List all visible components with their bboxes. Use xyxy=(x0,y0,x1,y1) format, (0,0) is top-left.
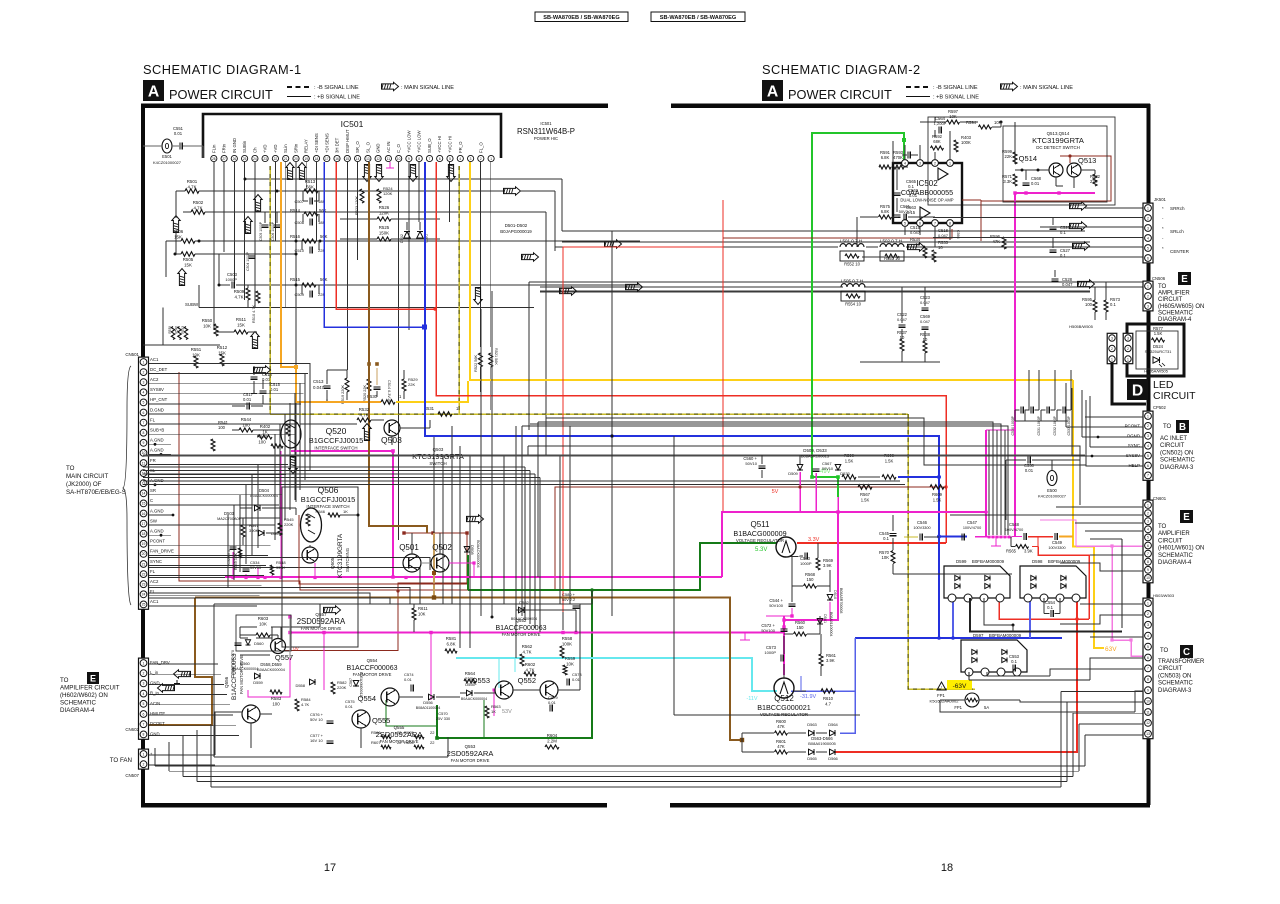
svg-text:SUB+B: SUB+B xyxy=(150,428,164,433)
diode D533 xyxy=(835,465,841,471)
svg-text:C506 1000P: C506 1000P xyxy=(271,221,275,241)
svg-text:FR_O: FR_O xyxy=(458,141,463,153)
diode D560 xyxy=(245,640,250,645)
wire stubs into CP502 xyxy=(1085,416,1143,418)
main signal arrows on center buses xyxy=(522,253,539,261)
svg-text:FAN MOTOR DRIVE: FAN MOTOR DRIVE xyxy=(451,758,490,763)
svg-text:C533 1000P: C533 1000P xyxy=(1067,415,1071,435)
IC502 pins top xyxy=(902,160,909,167)
svg-text:1.5K: 1.5K xyxy=(861,498,870,503)
svg-text:B0JAPG000019: B0JAPG000019 xyxy=(500,229,532,234)
long bus pair y242 xyxy=(562,241,1090,243)
svg-text:100V/4700: 100V/4700 xyxy=(963,526,981,530)
svg-text:1: 1 xyxy=(1111,357,1113,361)
svg-text:13: 13 xyxy=(1146,732,1150,736)
dual op amp IC502 box xyxy=(893,163,962,223)
svg-text:R521 56K: R521 56K xyxy=(494,348,498,365)
svg-text:HELP: HELP xyxy=(1129,463,1141,468)
resistor R522 xyxy=(478,353,482,367)
capacitor C562 xyxy=(894,192,901,194)
svg-text:2SD0592ARA: 2SD0592ARA xyxy=(297,617,346,626)
caps C505 C506 1000P rotated xyxy=(262,224,269,226)
resistor R584 xyxy=(295,699,299,711)
svg-text:PCONT: PCONT xyxy=(150,539,165,544)
svg-text:D509, D533: D509, D533 xyxy=(803,448,827,453)
svg-text:9: 9 xyxy=(143,441,145,445)
svg-text:0.1: 0.1 xyxy=(1060,230,1066,235)
wire bundle center to right xyxy=(546,418,1143,466)
svg-text:8: 8 xyxy=(143,733,145,737)
svg-text:3: 3 xyxy=(1147,434,1149,438)
svg-text:0.01: 0.01 xyxy=(270,387,279,392)
svg-text:0.047: 0.047 xyxy=(910,230,921,235)
IC502 pins bottom xyxy=(902,220,909,227)
op amp triangle bottom xyxy=(920,207,930,219)
text TO AMPLIFIER CIRCUIT E (CN601) xyxy=(1180,510,1193,523)
svg-text:1000P: 1000P xyxy=(764,650,776,655)
svg-text:D556: D556 xyxy=(423,700,433,705)
svg-text:SCHEMATIC: SCHEMATIC xyxy=(1158,310,1194,316)
svg-text:0.047: 0.047 xyxy=(920,319,931,324)
svg-text:SUBW: SUBW xyxy=(185,302,199,307)
transistor Q552 xyxy=(540,681,558,699)
svg-text:3: 3 xyxy=(919,162,921,166)
svg-text:21: 21 xyxy=(142,562,146,566)
blue wire pin16 xyxy=(324,162,423,327)
dark green wire 5.3V net xyxy=(468,543,777,590)
resistor R552 xyxy=(840,251,864,261)
svg-text:28: 28 xyxy=(212,157,216,161)
LED circuit box xyxy=(1127,324,1184,376)
svg-text:FL: FL xyxy=(150,417,156,422)
svg-text:C504 1000P: C504 1000P xyxy=(246,251,250,271)
svg-text:: +B SIGNAL LINE: : +B SIGNAL LINE xyxy=(933,95,979,101)
svg-text:CN601: CN601 xyxy=(1153,496,1167,501)
svg-text:CN506: CN506 xyxy=(1152,276,1166,281)
svg-text:0.1: 0.1 xyxy=(1110,302,1116,307)
svg-text:D533: D533 xyxy=(840,471,850,476)
svg-text:DGND: DGND xyxy=(1127,433,1140,438)
connector CN506 xyxy=(1143,281,1153,311)
svg-text:1: 1 xyxy=(1147,503,1149,507)
svg-text:63V: 63V xyxy=(1105,646,1117,653)
svg-text:0.047: 0.047 xyxy=(313,385,325,390)
svg-text:9: 9 xyxy=(408,157,410,161)
svg-text:100: 100 xyxy=(272,702,280,707)
wires Q557 cluster xyxy=(240,634,256,636)
left text TO AMPLIFIER CIRCUIT E xyxy=(87,672,99,684)
svg-text:+VCC LOW: +VCC LOW xyxy=(406,129,411,153)
svg-text:5.3V: 5.3V xyxy=(755,547,767,553)
model label SB-WA870EB box 2 xyxy=(651,12,745,22)
svg-text:7: 7 xyxy=(143,723,145,727)
svg-text:50V2.2: 50V2.2 xyxy=(899,209,912,214)
svg-text:AC1: AC1 xyxy=(150,357,159,362)
svg-text:150: 150 xyxy=(807,577,815,582)
svg-text:B08A01900005: B08A01900005 xyxy=(808,741,836,746)
legend main signal line xyxy=(1001,82,1018,90)
svg-text:150: 150 xyxy=(797,625,805,630)
svg-text:-63V: -63V xyxy=(953,683,967,690)
svg-text:10: 10 xyxy=(1146,699,1150,703)
svg-text:R550: R550 xyxy=(202,318,213,323)
red wire pin15 xyxy=(336,162,434,309)
svg-text:4: 4 xyxy=(1147,634,1149,638)
resistor R610 xyxy=(821,689,835,694)
brown thick bus xyxy=(195,598,742,741)
diode D508 xyxy=(464,547,470,553)
staircase bundle step-down verticals xyxy=(524,467,526,620)
svg-text:IC502: IC502 xyxy=(916,179,938,188)
warning triangle FP1 xyxy=(937,682,946,690)
svg-text:4.7K: 4.7K xyxy=(234,295,243,300)
transistor Q502 xyxy=(431,554,449,572)
svg-text:Q506: Q506 xyxy=(318,485,339,495)
svg-text:C547: C547 xyxy=(967,520,978,525)
svg-text:4.7: 4.7 xyxy=(825,702,831,707)
wires mid-left lower xyxy=(143,344,220,346)
svg-text:B0AACK000004: B0AACK000004 xyxy=(511,617,537,621)
svg-text:C567: C567 xyxy=(349,678,353,687)
svg-text:11: 11 xyxy=(387,157,391,161)
svg-text:VOLTAGE REGULATOR: VOLTAGE REGULATOR xyxy=(760,712,808,717)
svg-text:0.01: 0.01 xyxy=(909,193,918,198)
wire SUBW line xyxy=(199,307,534,309)
svg-text:R603: R603 xyxy=(258,616,269,621)
svg-text:CN507: CN507 xyxy=(125,773,139,778)
svg-text:Ch: Ch xyxy=(252,147,257,153)
svg-text:R594: R594 xyxy=(966,120,977,125)
svg-text:1: 1 xyxy=(1147,206,1149,210)
svg-text:19: 19 xyxy=(304,157,308,161)
svg-text:D502: D502 xyxy=(400,234,404,243)
svg-text:TO: TO xyxy=(66,465,75,472)
svg-text:6: 6 xyxy=(1147,464,1149,468)
svg-text:R581: R581 xyxy=(446,636,457,641)
svg-text:0.01: 0.01 xyxy=(1031,181,1040,186)
svg-text:2: 2 xyxy=(1147,216,1149,220)
long vertical buses center xyxy=(611,231,613,616)
svg-text:D561: D561 xyxy=(823,614,827,623)
svg-text:SCHEMATIC: SCHEMATIC xyxy=(60,700,97,707)
svg-text:2: 2 xyxy=(1111,347,1113,351)
svg-text:390K: 390K xyxy=(249,528,259,533)
svg-text:47K: 47K xyxy=(777,724,785,729)
resistor R519 vertical xyxy=(345,378,349,392)
svg-text:4: 4 xyxy=(1147,236,1149,240)
tan wire Q502 xyxy=(433,533,435,597)
svg-text:POWER HIC: POWER HIC xyxy=(534,136,558,141)
svg-text:B0AACK000004: B0AACK000004 xyxy=(461,697,487,701)
svg-text:RELAY: RELAY xyxy=(304,139,309,153)
magenta squares fan right xyxy=(561,631,564,634)
magenta bus y632 xyxy=(289,632,783,634)
svg-text:1.5K: 1.5K xyxy=(885,459,894,464)
svg-text:FAN MOTOR DRIVE: FAN MOTOR DRIVE xyxy=(502,632,541,637)
svg-text:E500: E500 xyxy=(1047,488,1057,493)
connector H503/W503 xyxy=(1143,598,1153,739)
svg-text:100V3300: 100V3300 xyxy=(913,526,930,530)
svg-text:B1ACCF000063: B1ACCF000063 xyxy=(496,625,547,632)
svg-text:2: 2 xyxy=(1147,424,1149,428)
svg-text:B08A01100004: B08A01100004 xyxy=(416,706,441,710)
yellow wire +VCC HI bus xyxy=(470,162,1073,380)
transistor Q514 xyxy=(1049,163,1063,177)
svg-text:19: 19 xyxy=(142,542,146,546)
long bus y287 L505 line xyxy=(540,286,843,288)
diode D567 xyxy=(353,681,359,687)
svg-text:C509: C509 xyxy=(294,292,304,297)
svg-text:3.3V: 3.3V xyxy=(808,537,820,543)
svg-text:27: 27 xyxy=(222,157,226,161)
svg-text:H505B/W505: H505B/W505 xyxy=(1069,324,1094,329)
maroon Q501 Q502 wires xyxy=(284,533,467,651)
svg-text:L505 0.7 H: L505 0.7 H xyxy=(841,279,863,284)
svg-text:KTC3199GRTA: KTC3199GRTA xyxy=(337,533,344,578)
svg-text:: -B SIGNAL LINE: : -B SIGNAL LINE xyxy=(314,85,359,91)
wires IC502 sides xyxy=(892,141,894,163)
svg-text:1: 1 xyxy=(490,157,492,161)
svg-text:CIRCUIT: CIRCUIT xyxy=(1158,297,1183,303)
svg-text:SYNC: SYNC xyxy=(1128,443,1140,448)
svg-text:20: 20 xyxy=(142,552,146,556)
resistor R520 vertical xyxy=(367,379,371,391)
svg-text:9: 9 xyxy=(1147,689,1149,693)
svg-text:E501: E501 xyxy=(162,154,172,159)
svg-text:16V 10: 16V 10 xyxy=(310,738,323,743)
svg-text:22K: 22K xyxy=(408,382,415,387)
svg-text:(JK2000) OF: (JK2000) OF xyxy=(66,481,102,488)
svg-text:100: 100 xyxy=(218,425,226,430)
svg-text:0.047: 0.047 xyxy=(938,233,949,238)
svg-text:E: E xyxy=(1183,512,1190,523)
svg-text:FAN_DRIVE: FAN_DRIVE xyxy=(150,549,174,554)
svg-text:R549 3.9K: R549 3.9K xyxy=(234,552,238,570)
svg-text:4: 4 xyxy=(459,157,461,161)
svg-text:Q511: Q511 xyxy=(751,520,771,529)
svg-text:4: 4 xyxy=(1147,444,1149,448)
svg-text:0.01: 0.01 xyxy=(548,700,557,705)
svg-text:MAIN CIRCUIT: MAIN CIRCUIT xyxy=(66,473,108,480)
svg-text:D524: D524 xyxy=(1153,344,1164,349)
svg-text:D558: D558 xyxy=(295,683,305,688)
text TO AMPLIFIER CIRCUIT E (right top) xyxy=(1178,272,1191,285)
svg-text:0.1: 0.1 xyxy=(1060,253,1066,258)
red wire bridge D598 to diodes D565 D566 xyxy=(835,598,1077,752)
resistor R524 xyxy=(377,189,381,203)
red wire bridge D599 output xyxy=(999,598,1089,619)
svg-text:R554 10: R554 10 xyxy=(845,302,862,307)
magenta wire C547 to junction row xyxy=(975,536,989,538)
svg-text:22: 22 xyxy=(397,740,402,745)
svg-text:R511: R511 xyxy=(236,317,247,322)
gray wires fan area xyxy=(240,626,257,628)
svg-text:SCHEMATIC DIAGRAM-1: SCHEMATIC DIAGRAM-1 xyxy=(143,62,302,77)
svg-text:SB-WA870EB / SB-WA870EG: SB-WA870EB / SB-WA870EG xyxy=(543,15,619,21)
svg-text:9: 9 xyxy=(1147,568,1149,572)
svg-text:CENTER: CENTER xyxy=(1170,249,1190,254)
svg-text:7: 7 xyxy=(429,157,431,161)
wires op amp outputs xyxy=(962,199,981,201)
svg-text:25: 25 xyxy=(243,157,247,161)
diode D503 xyxy=(259,530,265,536)
svg-text:B0FBAM000009: B0FBAM000009 xyxy=(972,559,1005,564)
svg-text:TO: TO xyxy=(1163,424,1172,430)
diode D564 xyxy=(830,730,836,736)
svg-text:47K: 47K xyxy=(777,744,785,749)
svg-text:B0AACK000004: B0AACK000004 xyxy=(257,668,285,672)
svg-text:JK501: JK501 xyxy=(1154,197,1167,202)
svg-text:D598: D598 xyxy=(1032,559,1043,564)
svg-text:Q556: Q556 xyxy=(224,676,229,688)
svg-text:220K: 220K xyxy=(337,685,347,690)
svg-text:AMPLIFIER: AMPLIFIER xyxy=(1158,291,1190,297)
svg-text:15K: 15K xyxy=(184,263,192,268)
svg-text:1K: 1K xyxy=(343,509,348,514)
svg-text:1.5K: 1.5K xyxy=(933,498,942,503)
transistor Q555 xyxy=(352,710,370,728)
svg-text:3: 3 xyxy=(1147,623,1149,627)
wires E500 xyxy=(1006,459,1026,461)
svg-text:5V: 5V xyxy=(772,489,779,495)
magenta junction row Q511 xyxy=(790,614,793,617)
svg-text:3: 3 xyxy=(1127,336,1129,340)
svg-text:3.3K: 3.3K xyxy=(1003,179,1012,184)
blue wire C547 segment xyxy=(939,536,967,538)
svg-text:3: 3 xyxy=(1111,336,1113,340)
svg-text:5: 5 xyxy=(904,222,906,226)
svg-text:6.8K: 6.8K xyxy=(446,642,455,647)
svg-text:17: 17 xyxy=(324,862,336,874)
svg-text:50V10: 50V10 xyxy=(822,467,833,471)
svg-text:DIAGRAM-3: DIAGRAM-3 xyxy=(1158,688,1192,694)
cyan wire -11V net xyxy=(456,658,777,691)
svg-text:100K: 100K xyxy=(961,140,971,145)
svg-text:AMPILIFER CIRCUIT: AMPILIFER CIRCUIT xyxy=(60,685,120,692)
svg-text:21: 21 xyxy=(284,157,288,161)
svg-text:PCONT: PCONT xyxy=(1125,423,1141,428)
svg-text:-31.9V: -31.9V xyxy=(800,694,817,700)
svg-text:4.7K: 4.7K xyxy=(359,413,368,418)
svg-text:17: 17 xyxy=(325,157,329,161)
gray bus y455 A.GND long xyxy=(143,455,1085,457)
model label SB-WA870EB box 1 xyxy=(535,12,628,22)
svg-text:14: 14 xyxy=(142,492,146,496)
svg-text:SCHEMATIC: SCHEMATIC xyxy=(1158,681,1194,687)
svg-text:10K: 10K xyxy=(259,622,267,627)
svg-text:5A: 5A xyxy=(984,705,989,710)
svg-text:0.1: 0.1 xyxy=(1047,605,1053,610)
svg-text:1000P: 1000P xyxy=(225,277,237,282)
svg-text:10K: 10K xyxy=(203,324,211,329)
wire bundle CN501 lower pins xyxy=(149,558,430,571)
svg-text:100K: 100K xyxy=(562,642,572,647)
svg-text:330K: 330K xyxy=(276,566,285,570)
svg-text:FL_O: FL_O xyxy=(478,142,483,153)
svg-text:A.GND: A.GND xyxy=(150,508,164,513)
long bus y247 to JK501 pin5 xyxy=(555,246,838,248)
wires Q520 Q503 xyxy=(232,429,239,431)
svg-text:2: 2 xyxy=(480,157,482,161)
svg-text:22: 22 xyxy=(397,730,402,735)
svg-text:24: 24 xyxy=(253,157,257,161)
svg-text:22: 22 xyxy=(430,730,435,735)
svg-text:1: 1 xyxy=(143,661,145,665)
svg-text:AC1: AC1 xyxy=(150,599,159,604)
svg-text:SL_O: SL_O xyxy=(365,141,370,153)
arrows mid left xyxy=(254,366,271,374)
svg-text:6.8K: 6.8K xyxy=(881,209,890,214)
svg-text:FR: FR xyxy=(150,458,156,463)
orange wire from IC501 pin20 xyxy=(281,162,381,402)
svg-text:A.GND: A.GND xyxy=(150,478,164,483)
svg-text:C531 1000P: C531 1000P xyxy=(1037,415,1041,435)
svg-text:D563: D563 xyxy=(807,722,817,727)
diode D502 xyxy=(404,232,410,238)
thick bus y291 xyxy=(540,290,1090,292)
red wire C548 C549 net xyxy=(1028,536,1053,538)
svg-text:B1ACCF000063: B1ACCF000063 xyxy=(231,653,238,700)
svg-text:5: 5 xyxy=(1147,454,1149,458)
svg-text:AC IN: AC IN xyxy=(386,142,391,153)
wire fan to H503 xyxy=(1080,603,1143,605)
svg-text:68K: 68K xyxy=(933,139,941,144)
svg-text:SW: SW xyxy=(150,518,158,523)
svg-text:7: 7 xyxy=(1147,667,1149,671)
svg-text:22: 22 xyxy=(142,572,146,576)
arrow above R522 xyxy=(474,288,482,305)
svg-text:6: 6 xyxy=(1147,656,1149,660)
gray verticals right center x988-1008 xyxy=(988,430,990,535)
legend -B signal line xyxy=(287,86,311,88)
bridge rectifier D598 xyxy=(1020,566,1086,598)
svg-text:1.5K: 1.5K xyxy=(845,459,854,464)
svg-text:18: 18 xyxy=(941,862,953,874)
svg-text:B1BCCG000021: B1BCCG000021 xyxy=(757,703,811,712)
red wire pin6 long bus xyxy=(436,162,946,543)
svg-text:+VCC HI: +VCC HI xyxy=(437,136,442,153)
connector CP502 xyxy=(1143,411,1153,480)
svg-text:SLin: SLin xyxy=(283,144,288,153)
svg-text:D559: D559 xyxy=(253,680,263,685)
svg-text:7: 7 xyxy=(1147,552,1149,556)
svg-text:FL: FL xyxy=(150,569,156,574)
svg-text:DIAGRAM-3: DIAGRAM-3 xyxy=(1160,465,1194,471)
legend main signal line xyxy=(382,82,399,90)
svg-text:IC501: IC501 xyxy=(540,121,552,126)
fuse FP1 xyxy=(965,693,979,707)
svg-text:50V10: 50V10 xyxy=(745,461,757,466)
svg-text:2: 2 xyxy=(143,763,145,767)
svg-text:Q513: Q513 xyxy=(1078,156,1096,165)
svg-text:R543: R543 xyxy=(181,326,185,334)
svg-text:Q554: Q554 xyxy=(367,658,378,663)
svg-text:6: 6 xyxy=(143,712,145,716)
svg-text:DC DETECT SWITCH: DC DETECT SWITCH xyxy=(1036,145,1080,150)
connector CN507 TO FAN xyxy=(139,749,149,769)
svg-text:50V100: 50V100 xyxy=(761,628,776,633)
diode D562 xyxy=(519,607,525,613)
resistor R521 xyxy=(489,353,493,367)
svg-text:3: 3 xyxy=(1147,226,1149,230)
connector CN501 xyxy=(139,357,149,609)
svg-text:B1BACG000009: B1BACG000009 xyxy=(733,529,786,538)
svg-text:50V 2.2: 50V 2.2 xyxy=(562,598,575,602)
svg-text:R512: R512 xyxy=(217,345,228,350)
bus wires upper left xyxy=(245,178,562,180)
inductor L501 xyxy=(840,244,864,247)
black segment between R598 R608 xyxy=(858,476,880,478)
